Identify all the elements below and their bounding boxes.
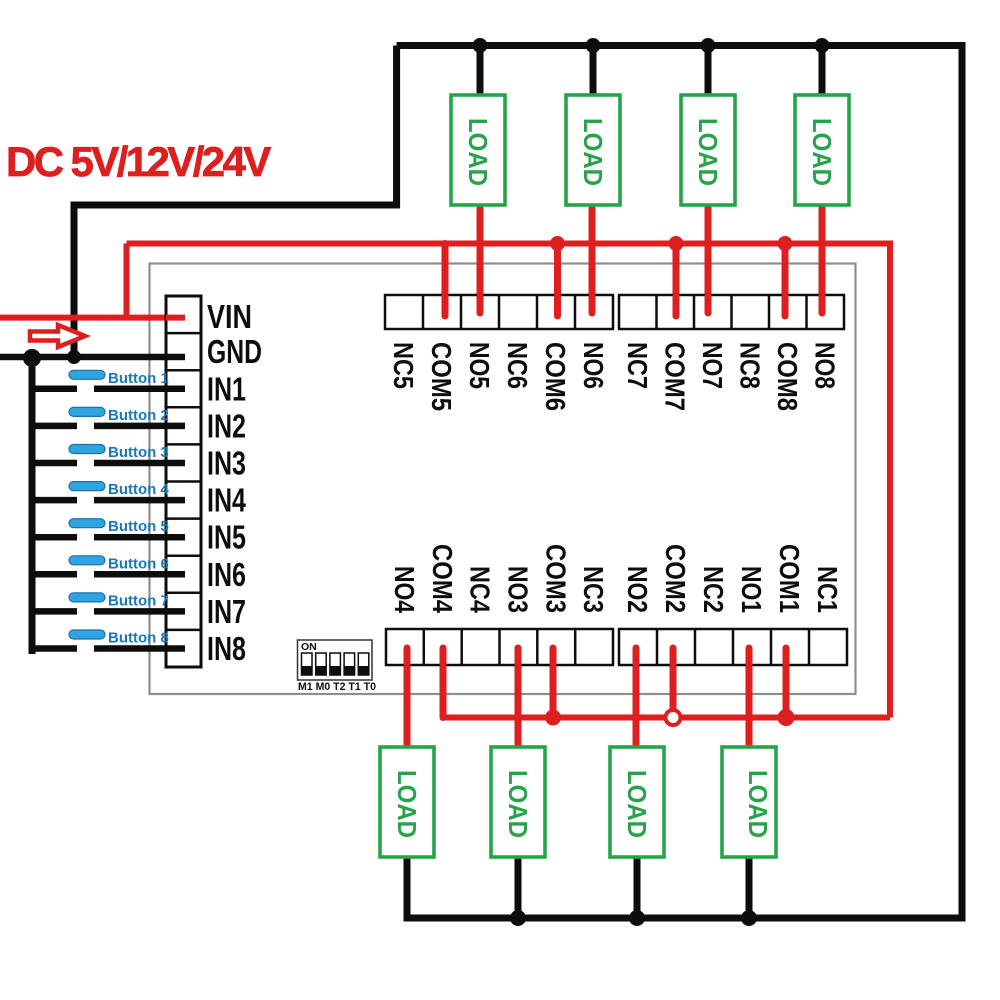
svg-text:GND: GND [207,333,262,370]
svg-text:NO6: NO6 [578,342,609,389]
input arrow [30,325,85,347]
input connector strip [166,296,201,667]
wire red COM2 to bottom bus [670,648,677,710]
junction dot top bus L8 [815,38,830,53]
svg-text:IN2: IN2 [207,407,246,444]
pin label IN8 [207,630,246,667]
pin label IN5 [207,519,246,556]
svg-text:NC6: NC6 [502,342,533,389]
svg-text:NO2: NO2 [622,566,653,613]
red VIN stub into connector [166,315,185,321]
svg-text:NC5: NC5 [388,342,419,389]
wire red bottom bus [443,715,890,721]
svg-text:NC8: NC8 [734,342,765,389]
svg-text:NO1: NO1 [736,566,767,613]
svg-text:Button 8: Button 8 [108,630,169,647]
junction dot GND left [23,349,41,367]
red stubs into top terminal cells [445,296,822,316]
svg-text:NO3: NO3 [502,566,533,613]
wire red riser to top red bus [124,244,130,318]
junction dot COM8 [778,236,793,251]
relay board outline [150,264,856,695]
wire red load8 to NO8 [819,205,826,316]
svg-text:LOAD: LOAD [807,118,837,186]
svg-text:IN3: IN3 [207,445,246,482]
terminal strip top group B [619,295,844,329]
svg-text:Button 4: Button 4 [108,481,169,498]
svg-text:LOAD: LOAD [693,118,723,186]
wire red top bus [127,244,891,718]
wire red load5 to NO5 [477,205,484,316]
push button S1 [32,370,185,389]
svg-text:NO7: NO7 [697,342,728,389]
wire red NO4 to load1 [404,648,411,747]
load L6 [566,95,620,205]
push button S6 [32,555,185,574]
push button S3 [32,444,185,463]
svg-text:VIN: VIN [207,298,252,335]
wire red drop COM7 [673,244,680,317]
svg-text:LOAD: LOAD [578,118,608,186]
wire red NO2 to load3 [633,648,640,747]
junction dot COM7 [669,236,684,251]
load L1 [380,747,434,857]
pin label IN4 [207,482,246,519]
pin label IN3 [207,445,246,482]
terminal strip bottom group A [386,629,613,665]
wire black drop to load L7 [705,46,712,96]
wire red COM4 to bottom bus [440,648,447,718]
black GND stub into connector [166,354,185,361]
pin label IN2 [207,407,246,444]
svg-text:IN1: IN1 [207,370,246,407]
svg-text:Button 2: Button 2 [108,407,169,424]
svg-text:COM8: COM8 [772,342,803,411]
junction dot COM1 [778,709,795,726]
svg-text:COM5: COM5 [426,342,457,411]
wire black load3 to bottom bus [634,857,641,918]
wire black GND horizontal [0,354,185,361]
junction dot top bus L6 [586,38,601,53]
bottom terminal labels [389,544,843,613]
wire black drop to load L6 [590,46,597,96]
wire red drop COM5 [442,244,449,317]
wire red VIN horizontal [0,315,185,321]
svg-text:Button 5: Button 5 [108,518,169,535]
wire black top feed from VIN area corner [74,46,397,358]
svg-text:NC1: NC1 [812,566,843,613]
wire black load4 to bottom bus [746,857,753,918]
terminal strip bottom group B [619,629,847,665]
wire red NO3 to load2 [515,648,522,747]
junction dot COM6 [550,236,565,251]
wire red COM1 to bottom bus [783,648,790,718]
load L3 [610,747,664,857]
svg-text:IN5: IN5 [207,519,246,556]
svg-text:NC7: NC7 [622,342,653,389]
svg-text:LOAD: LOAD [622,770,652,838]
svg-text:ON: ON [301,641,317,653]
dip switch block [298,640,377,693]
svg-text:DC 5V/12V/24V: DC 5V/12V/24V [6,138,271,185]
wire red COM3 to bottom bus [550,648,557,718]
junction dot bottom bus L3 [629,910,645,926]
push button S2 [32,407,185,426]
junction dot bottom bus L4 [741,910,757,926]
label DC supply [6,138,271,185]
svg-text:COM7: COM7 [659,342,690,411]
wire black load1 to bottom bus [404,857,411,918]
pin label IN6 [207,556,246,593]
svg-text:COM4: COM4 [427,544,458,613]
junction dot GND feed [67,350,81,364]
junction dot top bus L7 [701,38,716,53]
svg-text:NC2: NC2 [698,566,729,613]
red stubs into bottom terminal cells [407,648,786,664]
pin label VIN [207,298,252,335]
svg-text:LOAD: LOAD [743,770,773,838]
push button S8 [32,630,185,649]
svg-text:NO8: NO8 [809,342,840,389]
svg-text:M1 M0 T2 T1 T0: M1 M0 T2 T1 T0 [298,681,376,693]
svg-text:IN4: IN4 [207,482,246,519]
junction dot top bus L5 [473,38,488,53]
push button S4 [32,481,185,500]
wire red drop COM8 [782,244,789,317]
svg-text:IN7: IN7 [207,593,246,630]
svg-text:NC3: NC3 [578,566,609,613]
svg-text:COM1: COM1 [774,544,805,613]
wire black button bus left [29,357,36,654]
load L4 [722,747,776,857]
svg-text:LOAD: LOAD [463,118,493,186]
wire black top bus [397,46,962,919]
wire red load6 to NO6 [589,205,596,316]
svg-text:Button 1: Button 1 [108,370,169,387]
load L2 [491,747,545,857]
svg-text:IN6: IN6 [207,556,246,593]
junction dot bottom bus L2 [510,910,526,926]
svg-text:LOAD: LOAD [392,770,422,838]
wire black load2 to bottom bus [515,857,522,918]
load L5 [451,95,505,205]
push button S5 [32,518,185,537]
load L8 [795,95,849,205]
wire black drop to load L5 [477,46,484,96]
pin label IN1 [207,370,246,407]
junction dot COM3 [545,710,561,726]
push button S7 [32,592,185,611]
svg-text:Button 6: Button 6 [108,555,169,572]
svg-text:NC4: NC4 [465,566,496,613]
svg-text:Button 3: Button 3 [108,444,169,461]
svg-text:Button 7: Button 7 [108,592,169,609]
wire red NO1 to load4 [746,648,753,747]
svg-text:IN8: IN8 [207,630,246,667]
load L7 [681,95,735,205]
terminal strip top group A [385,295,613,329]
svg-text:NO5: NO5 [464,342,495,389]
svg-text:COM3: COM3 [540,544,571,613]
svg-text:COM2: COM2 [660,544,691,613]
wire black drop to load L8 [819,46,826,96]
svg-text:COM6: COM6 [540,342,571,411]
svg-text:NO4: NO4 [389,566,420,613]
pin label GND [207,333,262,370]
pin label IN7 [207,593,246,630]
wire red load7 to NO7 [705,205,712,316]
top terminal labels [388,342,840,411]
svg-text:LOAD: LOAD [503,770,533,838]
junction ring COM2 [666,710,681,725]
wire red drop COM6 [554,244,561,317]
